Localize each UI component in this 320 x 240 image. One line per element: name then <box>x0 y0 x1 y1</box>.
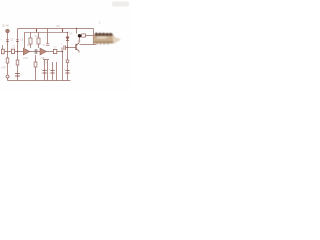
wire rail1 drop to IC corner <box>93 29 95 45</box>
wire resistor column x38 <box>38 32 40 48</box>
small box on x67.5 <box>66 60 69 63</box>
resistor R5 box <box>82 34 86 37</box>
input coupling box C1 <box>11 49 14 53</box>
capacitor plates on x47 <box>46 44 49 46</box>
wire dot to resistor to IC <box>81 35 95 37</box>
input box J1 <box>1 49 4 54</box>
wire drop x44.5 <box>43 60 46 81</box>
svg-text:+9V: +9V <box>56 25 61 28</box>
capacitor C4 plates <box>64 45 66 50</box>
wire drop x62 low <box>62 52 64 81</box>
IC U2 DIP package <box>94 33 122 45</box>
wire top rail V+ <box>18 28 94 30</box>
wire collector drop x76 <box>76 29 78 34</box>
wire horizontal y44 <box>80 44 97 46</box>
diode D1 <box>66 37 69 40</box>
wire stub up to cap <box>61 47 63 51</box>
node black dot <box>78 34 81 37</box>
wire second rail <box>25 31 68 33</box>
transistor Q1 <box>75 44 77 50</box>
polarized capacitor on x67.5 <box>65 71 69 73</box>
wire signal segment in <box>4 51 23 53</box>
capacitor plates on x7 <box>6 40 9 42</box>
wire drop x35 <box>35 55 37 81</box>
svg-text:OUT: OUT <box>1 66 7 69</box>
faint smudge top right <box>112 2 129 7</box>
wire diode column x67.5 <box>67 32 69 80</box>
label text smudges <box>0 21 101 76</box>
resistor R2 box <box>37 38 40 44</box>
resistor box on x7 <box>6 58 9 63</box>
wire mic column <box>7 33 9 75</box>
wire base link <box>66 46 76 48</box>
junction node dots <box>17 28 77 53</box>
wire junction tick x36 <box>36 29 38 33</box>
wire drop x56.8 <box>56 62 58 81</box>
wire terminal stub <box>7 78 9 81</box>
wire under dot <box>79 37 81 42</box>
microphone MIC1 <box>6 29 10 33</box>
capacitor C2 between stages <box>34 49 36 54</box>
resistor R1 box <box>29 38 32 44</box>
polarized capacitor on x52 <box>50 71 54 73</box>
resistor box on x17 <box>16 60 19 65</box>
svg-text:U1A: U1A <box>23 57 28 60</box>
wire junction tick x62 <box>62 29 64 33</box>
resistor box on x35 <box>34 62 37 67</box>
wire bottom rail <box>8 80 71 82</box>
op-amp U1b <box>40 48 46 55</box>
wire signal between opamps <box>29 51 40 53</box>
wire drop x47.5 <box>46 60 49 81</box>
wire left column x17 <box>17 29 19 81</box>
svg-text:U1B: U1B <box>40 57 45 60</box>
wire signal out <box>46 51 62 53</box>
svg-text:B1 M1: B1 M1 <box>3 25 11 28</box>
polarized capacitor on x44.5 <box>42 71 46 73</box>
wire drop x52 <box>52 62 54 81</box>
op-amp U1a <box>23 48 29 55</box>
terminal J2 <box>6 75 9 78</box>
svg-text:IC: IC <box>43 44 46 47</box>
wire bias column x24 <box>24 32 26 48</box>
capacitor plates on x17 <box>16 40 19 42</box>
wire input stub <box>2 45 4 49</box>
polarized capacitor on x17 <box>15 74 20 76</box>
wire resistor column x30 <box>30 32 32 48</box>
wire column x47 <box>47 29 49 44</box>
resistor box C3 <box>53 49 56 53</box>
